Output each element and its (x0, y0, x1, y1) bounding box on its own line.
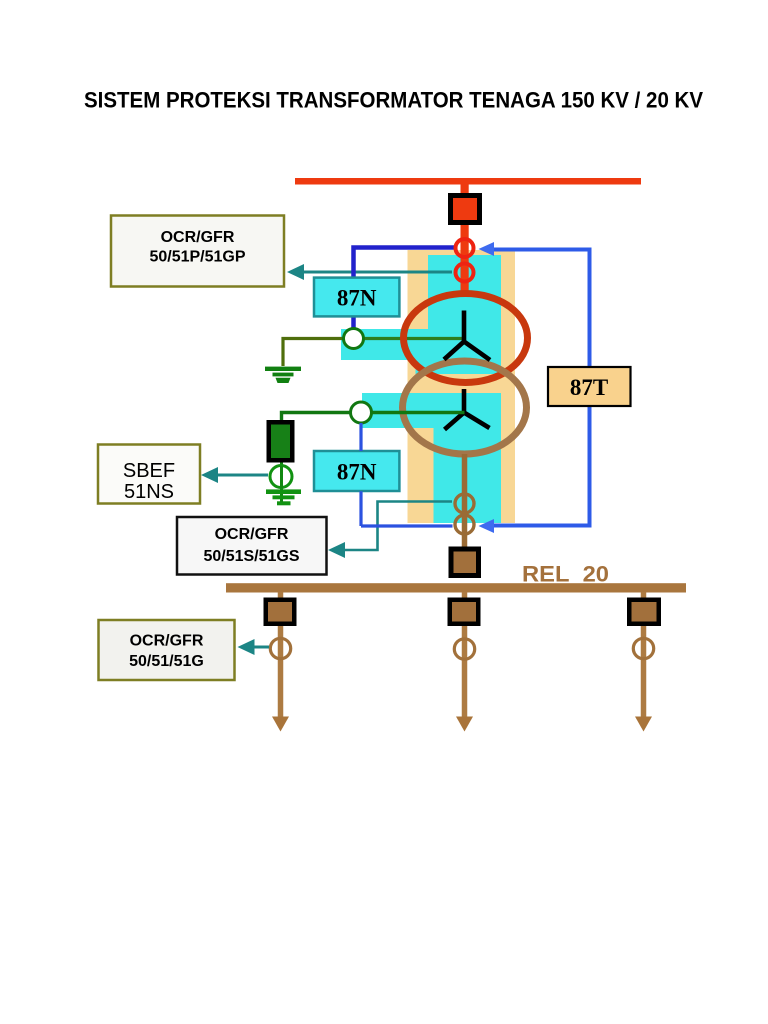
ground HV neutral (265, 367, 301, 383)
breaker feeder 2 (448, 598, 481, 627)
svg-text:OCR/GFR: OCR/GFR (130, 633, 204, 650)
relay box OCR/GFR 50/51P/51GP (111, 216, 284, 287)
CT P1 (red ring) (456, 239, 474, 257)
svg-text:SBEF: SBEF (123, 460, 175, 482)
CT N3 (green ring) (270, 466, 292, 489)
CT feeder 2 (454, 639, 474, 659)
arrow 87T to CT P1 (479, 242, 495, 256)
wire OCR feeder teal (254, 646, 270, 649)
NGR resistor (267, 420, 295, 463)
svg-text:50/51S/51GS: 50/51S/51GS (203, 548, 299, 565)
cyan zone 87N secondary (362, 393, 501, 523)
CT S2 (brown ring) (455, 515, 474, 534)
arrow to SBEF box (201, 467, 218, 483)
label REL 20 (522, 562, 609, 587)
wire NGR to ground (280, 463, 283, 504)
title (84, 88, 703, 113)
circuit breaker CB2 20kV (449, 547, 482, 579)
arrow to OCR/GFR primary box (287, 264, 304, 280)
relay box 87T (548, 367, 631, 406)
wire neutral LV green (282, 413, 465, 421)
CT N1 (green ring) (344, 329, 364, 349)
wire OCR secondary teal (344, 502, 452, 551)
CT N2 (green ring) (351, 402, 372, 423)
svg-text:SISTEM PROTEKSI TRANSFORMATOR: SISTEM PROTEKSI TRANSFORMATOR TENAGA 150… (84, 88, 703, 113)
relay box 87N-2 (314, 451, 399, 491)
arrow feeder 2 (456, 717, 473, 732)
wire OCR/GFR primary teal (303, 271, 452, 274)
HV feeder wire (red vertical) (461, 184, 469, 296)
wire 87T blue right (494, 250, 590, 526)
LV feeder wire brown (462, 454, 468, 547)
cyan zone 87N primary (341, 255, 501, 374)
differential zone tan band (408, 250, 516, 523)
transformer HV winding (404, 294, 528, 383)
svg-text:87N: 87N (337, 460, 377, 485)
svg-text:50/51P/51GP: 50/51P/51GP (149, 249, 245, 266)
arrow to OCR/GFR feeder box (238, 639, 255, 655)
relay box OCR/GFR 50/51S/51GS (177, 517, 327, 575)
feeder 2 wire (462, 592, 468, 717)
CT S1 (brown ring) (455, 494, 474, 513)
svg-text:OCR/GFR: OCR/GFR (161, 229, 235, 246)
busbar REL 20 (226, 583, 686, 592)
CT feeder 1 (270, 638, 290, 658)
wye symbol HV (444, 311, 490, 361)
relay box SBEF 51NS (98, 445, 200, 504)
relay box 87N-1 (314, 278, 399, 317)
svg-text:REL 20: REL 20 (522, 562, 609, 587)
svg-text:87N: 87N (337, 286, 377, 311)
transformer LV winding (403, 361, 527, 454)
wire neutral HV olive left (283, 339, 344, 367)
CT feeder 3 (633, 638, 653, 658)
arrow to OCR/GFR secondary box (328, 542, 345, 558)
relay box OCR/GFR 50/51/51G (99, 620, 235, 680)
busbar 150 kV (red) (295, 178, 641, 185)
arrow feeder 1 (272, 717, 289, 732)
CT P2 (red ring) (456, 264, 474, 282)
arrow feeder 3 (635, 717, 652, 732)
svg-text:OCR/GFR: OCR/GFR (215, 526, 289, 543)
wire 87N-1 dark blue (354, 248, 455, 329)
wye symbol LV (445, 389, 490, 430)
feeder 1 wire (278, 592, 284, 717)
breaker feeder 1 (264, 598, 297, 627)
svg-text:87T: 87T (570, 375, 608, 400)
wire SBEF teal (217, 474, 268, 477)
svg-text:51NS: 51NS (124, 481, 174, 503)
ground LV neutral (266, 489, 301, 505)
circuit breaker CB1 150kV (448, 193, 482, 225)
breaker feeder 3 (627, 598, 661, 627)
wire neutral HV green right (354, 337, 465, 340)
feeder 3 wire (641, 592, 647, 717)
svg-text:50/51/51G: 50/51/51G (129, 653, 204, 670)
arrow 87T to CT S2 (479, 519, 495, 533)
wire 87N-2 blue (361, 423, 453, 526)
